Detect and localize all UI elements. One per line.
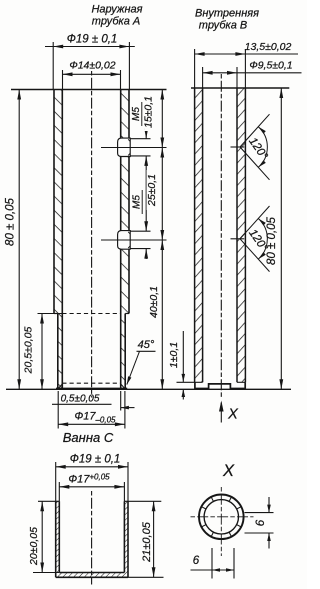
svg-text:трубка А: трубка А	[92, 16, 140, 28]
svg-text:25±0,1: 25±0,1	[146, 174, 158, 207]
svg-text:45°: 45°	[138, 339, 155, 351]
svg-text:80 ± 0,05: 80 ± 0,05	[5, 197, 17, 245]
svg-text:6: 6	[255, 519, 267, 526]
svg-text:21±0,05: 21±0,05	[141, 521, 153, 563]
svg-text:6: 6	[193, 555, 200, 567]
svg-text:15±0,1: 15±0,1	[143, 96, 155, 128]
svg-text:X: X	[227, 407, 239, 423]
svg-text:Ванна С: Ванна С	[63, 430, 114, 445]
svg-text:Внутренняя: Внутренняя	[195, 8, 259, 20]
svg-text:Ф19 ± 0,1: Ф19 ± 0,1	[70, 454, 121, 466]
svg-text:M5: M5	[131, 107, 142, 121]
svg-text:Ф9,5±0,1: Ф9,5±0,1	[249, 60, 292, 72]
svg-text:80 ± 0,05: 80 ± 0,05	[266, 216, 278, 264]
svg-text:M5: M5	[132, 195, 143, 209]
svg-text:20,5±0,05: 20,5±0,05	[23, 327, 35, 375]
svg-text:13,5±0,02: 13,5±0,02	[245, 41, 292, 53]
svg-text:0,5±0,05: 0,5±0,05	[61, 394, 100, 405]
svg-text:Ф14±0,02: Ф14±0,02	[69, 60, 115, 72]
svg-text:Наружная: Наружная	[91, 4, 142, 16]
svg-text:X: X	[222, 462, 235, 480]
svg-text:40±0,1: 40±0,1	[148, 286, 160, 318]
svg-text:трубка В: трубка В	[199, 20, 247, 32]
svg-text:20±0,05: 20±0,05	[28, 527, 40, 566]
svg-text:Ф19 ± 0,1: Ф19 ± 0,1	[67, 34, 118, 46]
svg-text:1±0,1: 1±0,1	[168, 342, 180, 368]
